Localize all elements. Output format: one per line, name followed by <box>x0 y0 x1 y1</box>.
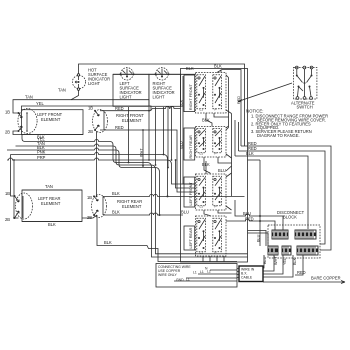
wire 2B to BLK bus <box>13 131 83 135</box>
svg-text:YEL: YEL <box>283 258 287 265</box>
svg-text:L1: L1 <box>193 271 197 275</box>
vertical bundle wires from indicator boxes <box>128 107 130 163</box>
svg-text:1B: 1B <box>5 191 10 196</box>
wire in bx cable box <box>239 266 263 282</box>
left surface indicator label box <box>113 74 149 106</box>
bus PRP <box>7 158 196 184</box>
svg-text:RED: RED <box>115 106 124 111</box>
wire YEL bus <box>22 106 152 111</box>
svg-text:RIGHT REAR: RIGHT REAR <box>189 135 193 159</box>
right rear element bottom BLK wire <box>103 213 183 215</box>
vertical wire crossing BLU RED <box>259 160 261 246</box>
svg-text:BLK: BLK <box>104 240 112 245</box>
svg-text:YEL: YEL <box>36 101 44 106</box>
wire hot light to TAN bus <box>13 90 79 113</box>
left front switch contacts <box>197 176 222 208</box>
wire BLK bottom run <box>15 215 238 262</box>
svg-text:BLK: BLK <box>112 210 120 215</box>
right front element symbol <box>93 110 108 133</box>
svg-text:BLK: BLK <box>48 222 56 227</box>
wire right front 2B down <box>96 131 98 196</box>
right rear element top BLK wire <box>103 194 245 196</box>
left front element symbol <box>18 109 38 134</box>
svg-text:L1: L1 <box>200 251 204 255</box>
svg-text:P: P <box>215 251 217 255</box>
bus YEL <box>22 135 248 258</box>
wire BLK exit 3 <box>235 156 308 229</box>
bus PNK <box>11 153 168 197</box>
svg-text:BLU: BLU <box>218 168 226 173</box>
left rear feed verticals <box>11 155 15 197</box>
svg-text:CABLE: CABLE <box>241 276 253 280</box>
svg-text:RED: RED <box>245 216 254 221</box>
right surface indicator light <box>155 68 170 80</box>
svg-text:1B: 1B <box>87 195 92 200</box>
svg-text:TAN: TAN <box>25 95 33 100</box>
svg-text:BLK: BLK <box>202 162 210 167</box>
right front switch dashed box <box>196 73 227 114</box>
bare copper wire arrow <box>263 281 345 284</box>
wire bank bottom to strip B <box>248 233 269 246</box>
svg-text:BARE COPPER: BARE COPPER <box>311 276 341 281</box>
svg-text:BLK: BLK <box>112 191 120 196</box>
svg-text:L2: L2 <box>207 270 211 274</box>
svg-text:ELEMENT: ELEMENT <box>41 117 61 122</box>
wire top bus from hot light <box>79 64 245 146</box>
wires in connecting box <box>174 270 237 281</box>
svg-text:RED: RED <box>297 270 306 275</box>
svg-text:2B: 2B <box>5 130 10 135</box>
right front switch contacts <box>197 75 222 112</box>
terminal strip E <box>297 246 318 255</box>
svg-text:1B: 1B <box>88 106 93 111</box>
right front switch label box <box>184 75 195 112</box>
junction dots on rear wires <box>167 195 169 197</box>
wire YEL strip down <box>263 255 283 274</box>
svg-text:BLU: BLU <box>180 141 184 149</box>
svg-text:L1: L1 <box>200 270 204 274</box>
svg-text:SWITCH: SWITCH <box>297 105 313 110</box>
wire bank top row <box>217 70 241 147</box>
svg-text:LEFT FRONT: LEFT FRONT <box>189 181 193 205</box>
vertical wires right of modules <box>229 78 239 197</box>
alternate switch contacts <box>295 66 313 99</box>
svg-text:RIGHT FRONT: RIGHT FRONT <box>189 84 193 111</box>
svg-text:LIGHT: LIGHT <box>120 94 133 99</box>
svg-text:L1: L1 <box>186 278 190 282</box>
svg-text:BLU: BLU <box>243 211 251 216</box>
svg-text:P: P <box>215 205 217 209</box>
right rear switch dashed box <box>196 126 227 157</box>
svg-text:PRP: PRP <box>37 155 46 160</box>
wire left rear bottom <box>13 218 82 222</box>
bus BLK2 <box>7 148 160 215</box>
svg-text:BLK: BLK <box>186 66 194 71</box>
svg-text:TAN: TAN <box>58 88 66 93</box>
left rear switch label box <box>184 226 195 250</box>
right rear switch contacts <box>197 129 222 156</box>
alternate switch dashed box <box>293 68 317 100</box>
svg-text:ELEMENT: ELEMENT <box>41 201 61 206</box>
svg-text:2B: 2B <box>5 217 10 222</box>
wire RED strip down <box>295 255 303 275</box>
wire WHT vertical <box>142 130 144 166</box>
terminal strip A <box>272 230 288 239</box>
wire RED out of module4 <box>226 219 275 230</box>
terminal strip D <box>282 246 291 255</box>
left surface indicator light <box>120 68 135 80</box>
wires module4 bottom <box>203 256 224 262</box>
hot surface indicator light <box>72 74 85 91</box>
wires module1 to module2 <box>206 70 232 131</box>
wire RED exit 1 <box>241 146 331 250</box>
wire BLU out of module4 <box>235 208 283 230</box>
svg-text:BLU: BLU <box>263 256 267 264</box>
svg-text:DIAGRAM TO RANGE.: DIAGRAM TO RANGE. <box>257 133 300 138</box>
svg-text:2B: 2B <box>87 215 92 220</box>
right surface indicator label box <box>149 74 181 106</box>
svg-text:BLK: BLK <box>202 118 210 123</box>
svg-text:WHT: WHT <box>274 256 278 265</box>
wire bank corner to strip C <box>248 231 267 247</box>
left rear switch dashed box <box>196 216 227 256</box>
svg-text:L1: L1 <box>200 108 204 112</box>
disconnect block dashed box <box>268 225 320 258</box>
svg-text:ELEMENT: ELEMENT <box>122 204 142 209</box>
left front switch label box <box>184 177 195 207</box>
terminal strip B <box>295 230 316 239</box>
svg-text:LIGHT: LIGHT <box>153 94 166 99</box>
svg-text:BLK: BLK <box>180 99 184 107</box>
svg-text:BLK: BLK <box>293 257 297 265</box>
svg-text:BLOCK: BLOCK <box>283 215 297 220</box>
right front element RED bottom wire <box>100 130 196 192</box>
right rear element symbol <box>92 195 107 218</box>
wire TAN bus right run <box>71 100 149 107</box>
svg-text:BLU: BLU <box>181 210 189 215</box>
wire BLK vertical left of bank <box>183 76 196 184</box>
wire WHT strip down <box>263 255 274 271</box>
wire RED exit 2 <box>239 151 326 244</box>
connecting wire box <box>156 264 237 288</box>
wire TAN to left rear <box>22 189 82 191</box>
svg-text:BLU: BLU <box>256 234 260 242</box>
svg-text:BLK: BLK <box>246 151 254 156</box>
wire through indicator lights <box>113 73 196 75</box>
svg-text:WIRE ONLY: WIRE ONLY <box>158 273 178 277</box>
svg-text:GND: GND <box>176 278 184 282</box>
left rear element box <box>22 190 82 222</box>
svg-text:TAN: TAN <box>45 184 53 189</box>
wire bend to disconnect <box>248 159 261 161</box>
svg-text:L1: L1 <box>200 205 204 209</box>
svg-text:ELEMENT: ELEMENT <box>122 118 142 123</box>
right rear switch label box <box>184 128 195 160</box>
svg-text:LIGHT: LIGHT <box>88 81 101 86</box>
wires module3 to module4 <box>204 173 235 216</box>
svg-text:BLK: BLK <box>214 64 222 69</box>
pointer line to alternate switch <box>238 83 292 102</box>
left rear element symbol <box>14 193 33 219</box>
wire PRP2 to left rear switch <box>164 107 196 188</box>
svg-text:1B: 1B <box>5 110 10 115</box>
bus TAN <box>16 144 248 254</box>
left front switch dashed box <box>196 174 227 210</box>
svg-text:2B: 2B <box>88 129 93 134</box>
left rear switch contacts <box>197 218 222 254</box>
left front element box <box>22 110 84 135</box>
terminal strip C <box>268 246 278 255</box>
svg-text:L1: L1 <box>200 152 204 156</box>
wire BLK strip down <box>263 255 293 277</box>
svg-text:P: P <box>215 108 217 112</box>
switch bank outer box <box>181 69 248 263</box>
svg-text:RED: RED <box>115 125 124 130</box>
svg-text:P: P <box>215 152 217 156</box>
svg-text:LEFT REAR: LEFT REAR <box>189 227 193 248</box>
wire BLU strip down <box>263 255 264 268</box>
wires module2 to module3 <box>204 126 232 174</box>
svg-text:PNK: PNK <box>37 150 46 155</box>
svg-text:WHT: WHT <box>139 148 143 157</box>
wires through bx box <box>237 269 239 278</box>
right front element RED top wire <box>100 107 181 111</box>
